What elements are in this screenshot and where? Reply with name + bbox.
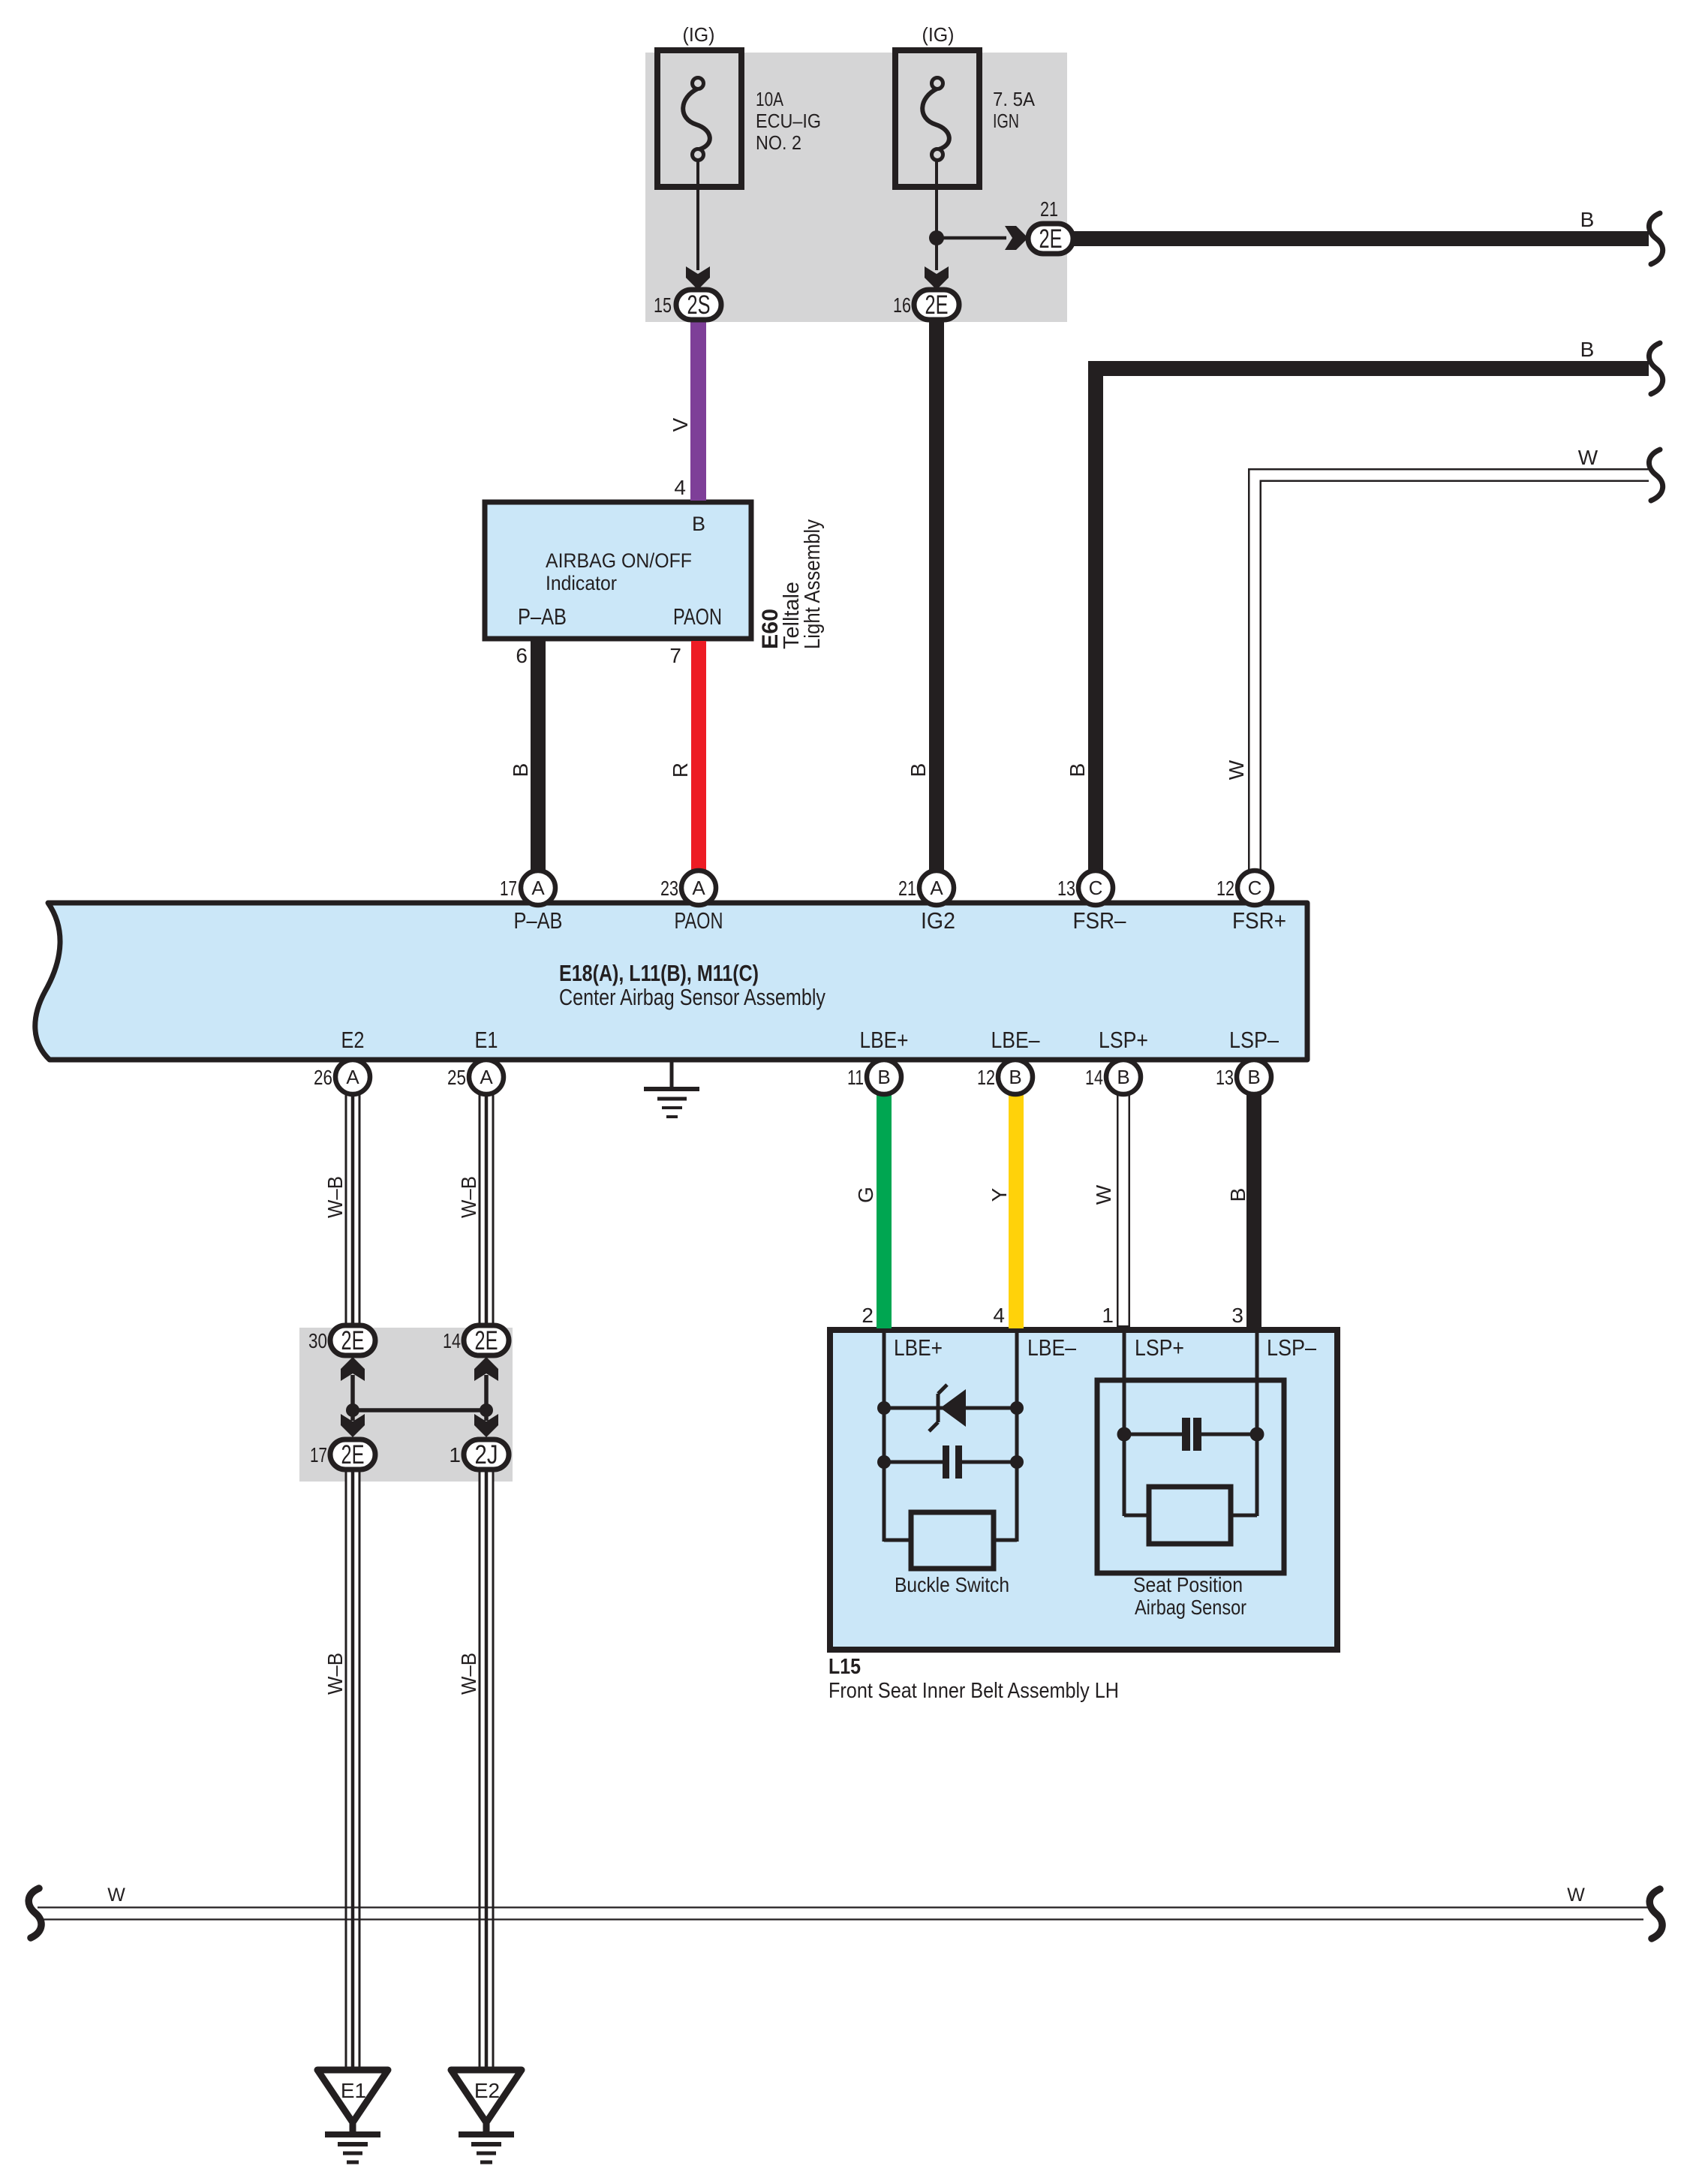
wire break squiggle top right	[1649, 213, 1662, 264]
label P-AB pin	[514, 907, 563, 934]
wire W-B right (pin25 to connector 2E pin14)	[479, 1094, 495, 1325]
svg-text:Y: Y	[988, 1187, 1011, 1202]
svg-text:11: 11	[847, 1066, 864, 1089]
svg-text:IG2: IG2	[921, 907, 955, 934]
svg-text:L15: L15	[828, 1655, 861, 1679]
svg-text:B: B	[509, 763, 532, 778]
label PAON pin	[675, 907, 723, 934]
svg-text:LBE–: LBE–	[1027, 1334, 1077, 1361]
svg-text:LSP+: LSP+	[1135, 1334, 1184, 1361]
svg-text:2E: 2E	[341, 1326, 365, 1355]
svg-text:LSP–: LSP–	[1229, 1027, 1280, 1053]
label E2 pin	[341, 1027, 365, 1053]
svg-text:W–B: W–B	[457, 1653, 480, 1695]
wire from fuse F1 to connector 2S	[686, 160, 710, 290]
svg-text:A: A	[531, 877, 545, 899]
pin 13 B terminal	[1237, 1060, 1271, 1094]
ground E2	[451, 2070, 522, 2162]
svg-text:12: 12	[1216, 877, 1234, 900]
label 7	[669, 644, 681, 667]
label W FSR+ feed	[1578, 446, 1598, 469]
label 17 connector	[310, 1443, 327, 1467]
label B wire FSR-	[1066, 763, 1089, 778]
connector 16 2E	[914, 290, 959, 320]
svg-text:21: 21	[898, 877, 916, 900]
svg-text:17: 17	[500, 877, 517, 900]
svg-text:W: W	[107, 1885, 125, 1906]
label 1 connector	[449, 1443, 461, 1467]
svg-text:ECU–IG: ECU–IG	[756, 110, 821, 132]
svg-text:Airbag Sensor: Airbag Sensor	[1135, 1596, 1246, 1619]
svg-text:13: 13	[1057, 877, 1075, 900]
label LSP+ pin	[1099, 1027, 1148, 1053]
label B FSR- feed	[1580, 338, 1595, 361]
svg-text:Indicator: Indicator	[546, 572, 617, 594]
label W wire LSP+	[1092, 1184, 1115, 1205]
label B wire P-AB	[509, 763, 532, 778]
svg-text:4: 4	[674, 476, 686, 499]
svg-text:7. 5A: 7. 5A	[993, 88, 1036, 110]
svg-text:25: 25	[447, 1066, 466, 1089]
svg-text:P–AB: P–AB	[514, 907, 563, 934]
pin 25 A terminal	[469, 1060, 504, 1094]
svg-text:23: 23	[660, 877, 678, 900]
label B wire LSP-	[1226, 1188, 1249, 1202]
wire break squiggle FSR+ feed	[1649, 450, 1662, 501]
svg-text:17: 17	[310, 1443, 327, 1467]
svg-text:26: 26	[314, 1066, 332, 1089]
svg-text:V: V	[669, 417, 692, 432]
svg-text:B: B	[1117, 1066, 1129, 1088]
label LBE- L15	[1027, 1334, 1077, 1361]
pin 26 A terminal	[335, 1060, 370, 1094]
seat position sensor internal lines	[1124, 1333, 1257, 1516]
svg-text:IGN: IGN	[993, 110, 1019, 132]
svg-text:E1: E1	[341, 2079, 366, 2102]
zener diode row in buckle switch	[877, 1401, 1024, 1415]
wire Y (yellow) LBE-	[1009, 1093, 1024, 1328]
svg-text:B: B	[1580, 338, 1595, 361]
seat position airbag sensor outline	[1097, 1380, 1284, 1573]
svg-text:P–AB: P–AB	[518, 603, 567, 630]
svg-text:E2: E2	[474, 2079, 500, 2102]
ground pigtail of center airbag sensor assembly	[644, 1062, 699, 1117]
relay block connector background (gray, left)	[299, 1328, 513, 1482]
label R wire PAON	[669, 763, 692, 778]
wire B (black) LSP-	[1246, 1093, 1261, 1333]
wire break squiggle bottom right	[1649, 1889, 1662, 1939]
svg-text:Seat Position: Seat Position	[1133, 1573, 1243, 1596]
label Buckle Switch	[895, 1573, 1009, 1596]
svg-text:2S: 2S	[687, 290, 711, 320]
label 2 L15	[862, 1304, 874, 1327]
label B wire IG2	[907, 763, 930, 778]
label Light Assembly	[801, 519, 825, 649]
svg-text:LBE+: LBE+	[894, 1334, 943, 1361]
arrow up to 2E pin30	[341, 1357, 365, 1410]
pin 12 C terminal	[1237, 871, 1272, 905]
svg-text:C: C	[1248, 877, 1262, 899]
label P-AB telltale	[518, 603, 567, 630]
svg-text:FSR+: FSR+	[1232, 907, 1286, 934]
svg-text:B: B	[1009, 1066, 1021, 1088]
L15 internal: buckle switch branch lines	[884, 1333, 1017, 1542]
connector 14 2E	[464, 1325, 509, 1355]
svg-text:4: 4	[993, 1304, 1005, 1327]
svg-text:1: 1	[1102, 1304, 1114, 1327]
svg-text:W–B: W–B	[323, 1176, 347, 1218]
capacitor C2	[1182, 1418, 1201, 1451]
wire W-B left lower (connector 2E pin17 to ground E1)	[345, 1471, 361, 2070]
label L15	[828, 1655, 861, 1679]
buckle switch body	[911, 1512, 994, 1569]
pin 13 C terminal	[1078, 871, 1113, 905]
svg-text:2E: 2E	[341, 1440, 365, 1470]
wire W (white) LSP+	[1117, 1093, 1130, 1328]
svg-text:AIRBAG ON/OFF: AIRBAG ON/OFF	[546, 549, 692, 572]
label E1 pin	[475, 1027, 498, 1053]
svg-text:E1: E1	[475, 1027, 498, 1053]
label 17	[500, 877, 517, 900]
fuse F1 10A ECU-IG NO.2	[657, 50, 741, 187]
svg-text:LBE+: LBE+	[860, 1027, 909, 1053]
svg-text:B: B	[877, 1066, 890, 1088]
label W wire FSR+	[1225, 760, 1248, 780]
label W bottom left	[107, 1885, 125, 1906]
wire R (red) from telltale pin7 to PAON	[691, 641, 706, 874]
svg-text:2: 2	[862, 1304, 874, 1327]
arrow down to 2E pin17	[341, 1410, 365, 1437]
svg-text:B: B	[1580, 208, 1595, 231]
svg-text:2E: 2E	[475, 1326, 498, 1355]
pin 11 B terminal	[867, 1060, 901, 1094]
pin 12 B terminal	[998, 1060, 1033, 1094]
label LBE+ L15	[894, 1334, 943, 1361]
svg-text:10A: 10A	[756, 88, 784, 110]
label 21	[1040, 197, 1058, 221]
label G wire	[854, 1187, 877, 1203]
capacitor row in buckle switch	[877, 1455, 1024, 1469]
label LSP- L15	[1267, 1334, 1317, 1361]
label Front Seat Inner Belt Assembly LH	[828, 1679, 1119, 1703]
svg-text:A: A	[480, 1066, 493, 1088]
label 30	[308, 1329, 327, 1352]
svg-text:E18(A), L11(B), M11(C): E18(A), L11(B), M11(C)	[559, 960, 759, 986]
fuse block background (gray)	[645, 53, 1067, 322]
svg-text:Buckle Switch: Buckle Switch	[895, 1573, 1009, 1596]
label FSR+ pin	[1232, 907, 1286, 934]
label E60	[758, 609, 783, 649]
label 10A ECU-IG NO.2	[756, 88, 821, 154]
label 4 L15	[993, 1304, 1005, 1327]
svg-text:B: B	[907, 763, 930, 778]
pin 14 B terminal	[1106, 1060, 1141, 1094]
label 4	[674, 476, 686, 499]
label 1 L15	[1102, 1304, 1114, 1327]
center airbag sensor assembly box E18/L11/M11	[35, 903, 1307, 1060]
connector 15 2S	[676, 290, 721, 320]
wire B IG2 (thick black vertical)	[929, 320, 944, 874]
telltale light assembly box E60	[485, 502, 751, 639]
label W-B upper left	[323, 1176, 347, 1218]
label Seat Position Airbag Sensor	[1133, 1573, 1246, 1619]
connector 1 2J	[464, 1439, 509, 1470]
junction node right	[480, 1403, 493, 1417]
label 3 L15	[1231, 1304, 1243, 1327]
label 13 pin C	[1057, 877, 1075, 900]
label V wire	[669, 417, 692, 432]
label 16	[893, 293, 911, 317]
connector 30 2E	[330, 1325, 375, 1355]
label (IG) fuse2	[922, 23, 955, 46]
svg-text:LSP+: LSP+	[1099, 1027, 1148, 1053]
svg-text:6: 6	[516, 644, 528, 667]
pin 17 A terminal	[521, 871, 555, 905]
label 13 pin B	[1216, 1066, 1234, 1089]
label 11	[847, 1066, 864, 1089]
label W-B upper right	[457, 1176, 480, 1218]
arrow up to 2E pin14	[474, 1357, 498, 1410]
front seat inner belt assembly box L15	[830, 1330, 1337, 1650]
label LSP+ L15	[1135, 1334, 1184, 1361]
svg-text:C: C	[1089, 877, 1103, 899]
svg-text:12: 12	[977, 1066, 995, 1089]
label AIRBAG ON/OFF Indicator	[546, 549, 692, 594]
wire break squiggle bottom left	[29, 1888, 41, 1938]
label 14 pin B	[1085, 1066, 1103, 1089]
label Y wire	[988, 1187, 1011, 1202]
label 12 pin C	[1216, 877, 1234, 900]
wire V (violet) from 2S to telltale box	[690, 320, 706, 501]
label LSP- pin	[1229, 1027, 1280, 1053]
wire W-B right lower (connector 2J pin1 to ground E2)	[479, 1471, 495, 2070]
svg-text:E2: E2	[341, 1027, 365, 1053]
svg-text:2E: 2E	[1039, 224, 1063, 254]
wire G (green) LBE+	[877, 1093, 892, 1328]
svg-text:15: 15	[654, 293, 672, 317]
svg-text:2J: 2J	[475, 1440, 498, 1470]
wire junction to connector 2E pin21	[937, 226, 1028, 250]
zener diode D1	[929, 1385, 966, 1431]
junction node left	[346, 1403, 359, 1417]
label W bottom right	[1567, 1885, 1585, 1906]
label Telltale	[780, 582, 804, 649]
wire from fuse F2 to junction and connector 2E pin16	[925, 160, 949, 290]
label LBE+ pin	[860, 1027, 909, 1053]
svg-text:W: W	[1225, 760, 1248, 780]
wire B to FSR- (thick black with corner)	[1096, 369, 1649, 874]
svg-text:PAON: PAON	[675, 907, 723, 934]
wire break squiggle FSR- feed	[1649, 343, 1662, 394]
ground E1	[317, 2070, 388, 2162]
svg-text:A: A	[930, 877, 943, 899]
label B top feed	[1580, 208, 1595, 231]
label 14 connector	[443, 1329, 461, 1352]
svg-text:B: B	[1066, 763, 1089, 778]
label 15	[654, 293, 672, 317]
label 6	[516, 644, 528, 667]
svg-text:W: W	[1092, 1184, 1115, 1205]
label 21 pin	[898, 877, 916, 900]
label W-B lower right	[457, 1653, 480, 1695]
fuse F2 7.5A IGN	[895, 50, 979, 187]
wire B from telltale pin6 to P-AB	[531, 639, 546, 874]
label Center Airbag Sensor Assembly	[559, 984, 825, 1010]
label 25	[447, 1066, 466, 1089]
label IG2 pin	[921, 907, 955, 934]
label E18(A), L11(B), M11(C)	[559, 960, 759, 986]
label B inside telltale	[692, 513, 705, 535]
svg-text:NO. 2: NO. 2	[756, 131, 801, 154]
svg-text:Front Seat Inner Belt Assembly: Front Seat Inner Belt Assembly LH	[828, 1679, 1119, 1703]
wire W to FSR+ (white wire with corner)	[1255, 475, 1649, 874]
wire between junctions	[353, 1408, 486, 1412]
svg-text:Center Airbag Sensor Assembly: Center Airbag Sensor Assembly	[559, 984, 825, 1010]
label FSR- pin	[1073, 907, 1127, 934]
svg-text:14: 14	[1085, 1066, 1103, 1089]
label W-B lower left	[323, 1653, 347, 1695]
svg-text:FSR–: FSR–	[1073, 907, 1127, 934]
connector 17 2E	[330, 1439, 375, 1470]
svg-text:W: W	[1567, 1885, 1585, 1906]
arrow down to 2J pin1	[474, 1410, 498, 1437]
label LBE- pin	[991, 1027, 1041, 1053]
bottom W ground wire (white, horizontal)	[38, 1908, 1648, 1920]
svg-text:B: B	[692, 513, 705, 535]
pin 21 A terminal	[919, 871, 954, 905]
svg-text:2E: 2E	[925, 290, 949, 320]
svg-text:(IG): (IG)	[683, 23, 715, 46]
svg-text:A: A	[346, 1066, 359, 1088]
svg-text:16: 16	[893, 293, 911, 317]
svg-text:W–B: W–B	[323, 1653, 347, 1695]
wire B from 2E pin21 to right (battery feed)	[1072, 231, 1649, 246]
junction node on IGN feed	[929, 230, 944, 245]
svg-text:7: 7	[669, 644, 681, 667]
label PAON telltale	[673, 603, 722, 630]
svg-text:W–B: W–B	[457, 1176, 480, 1218]
capacitor row in seat position sensor	[1117, 1427, 1264, 1442]
svg-text:A: A	[692, 877, 705, 899]
svg-text:PAON: PAON	[673, 603, 722, 630]
svg-text:(IG): (IG)	[922, 23, 955, 46]
svg-text:LBE–: LBE–	[991, 1027, 1041, 1053]
svg-text:14: 14	[443, 1329, 461, 1352]
svg-text:13: 13	[1216, 1066, 1234, 1089]
label 23	[660, 877, 678, 900]
label 26	[314, 1066, 332, 1089]
label 7.5A IGN	[993, 88, 1036, 132]
svg-text:R: R	[669, 763, 692, 778]
svg-text:B: B	[1247, 1066, 1260, 1088]
label (IG) fuse1	[683, 23, 715, 46]
svg-text:LSP–: LSP–	[1267, 1334, 1317, 1361]
svg-text:B: B	[1226, 1188, 1249, 1202]
capacitor C1	[943, 1445, 962, 1479]
seat position sensor body	[1149, 1487, 1231, 1544]
svg-text:G: G	[854, 1187, 877, 1203]
connector 21 2E	[1028, 224, 1073, 254]
svg-text:Light Assembly: Light Assembly	[801, 519, 825, 649]
wire W-B left (pin26 to connector 2E pin30)	[345, 1094, 361, 1325]
svg-text:3: 3	[1231, 1304, 1243, 1327]
svg-text:21: 21	[1040, 197, 1058, 221]
svg-text:1: 1	[449, 1443, 461, 1467]
svg-text:W: W	[1578, 446, 1598, 469]
svg-text:30: 30	[308, 1329, 327, 1352]
pin 23 A terminal	[681, 871, 716, 905]
label 12 pin B	[977, 1066, 995, 1089]
